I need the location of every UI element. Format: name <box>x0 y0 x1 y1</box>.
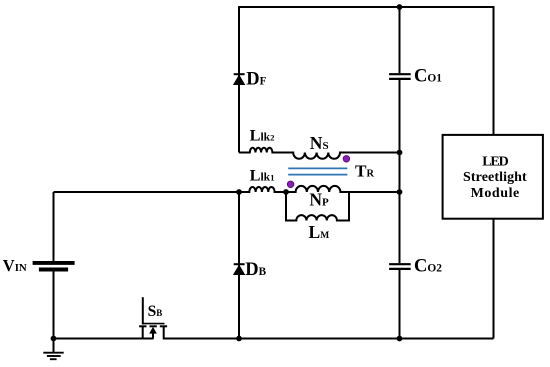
svg-text:DB: DB <box>245 260 266 280</box>
junction node lm <box>283 189 289 195</box>
svg-text:DF: DF <box>246 70 266 90</box>
wire diode DB branch vertical <box>238 192 240 339</box>
junction node primary right <box>397 189 403 195</box>
junction node top <box>397 4 403 10</box>
polarity dot primary <box>287 181 294 188</box>
ground <box>43 339 63 360</box>
wire primary horizontal with inductor Llk1 and winding NP <box>54 186 400 192</box>
source lead <box>142 326 144 339</box>
junction node secondary <box>397 150 403 156</box>
gate lead <box>142 297 144 324</box>
junction node ground <box>51 336 57 342</box>
svg-text:LM: LM <box>309 222 330 242</box>
svg-text:SB: SB <box>148 303 163 320</box>
svg-text:NP: NP <box>309 190 329 210</box>
label LED module text <box>463 154 527 200</box>
diode DB <box>234 264 245 274</box>
wire bottom rail <box>54 338 494 340</box>
svg-text:Llk1: Llk1 <box>250 165 275 184</box>
wire load vertical below module <box>493 219 495 339</box>
wire battery branch vertical <box>53 192 55 339</box>
svg-text:Streetlight: Streetlight <box>463 170 527 185</box>
inductor LM loop branch <box>286 192 349 221</box>
svg-text:VIN: VIN <box>3 256 27 275</box>
capacitor CO2 <box>389 264 411 269</box>
transistor SB mosfet <box>139 297 167 339</box>
polarity dot secondary <box>343 156 350 163</box>
junction node db bottom <box>236 336 242 342</box>
transformer TR core <box>288 168 347 174</box>
svg-text:CO2: CO2 <box>414 257 442 277</box>
channel segments <box>139 325 146 327</box>
svg-text:LED: LED <box>482 154 508 169</box>
capacitor CO1 <box>389 74 411 79</box>
svg-text:NS: NS <box>310 133 329 153</box>
LED streetlight module box <box>443 135 543 219</box>
wire secondary horizontal with inductor Llk2 and winding NS <box>239 148 400 159</box>
diode DF <box>234 74 245 84</box>
svg-text:Module: Module <box>471 186 520 201</box>
svg-text:CO1: CO1 <box>414 67 442 87</box>
wire output capacitor branch vertical <box>399 7 401 339</box>
body arrow <box>149 327 157 334</box>
gate plate <box>142 323 165 325</box>
junction node db top <box>236 189 242 195</box>
drain lead <box>163 326 165 339</box>
wire top rail with corners <box>239 7 494 153</box>
junction node bottom co2 <box>397 336 403 342</box>
svg-text:Llk2: Llk2 <box>250 126 275 145</box>
svg-text:TR: TR <box>355 162 374 181</box>
battery VIN <box>33 263 75 270</box>
